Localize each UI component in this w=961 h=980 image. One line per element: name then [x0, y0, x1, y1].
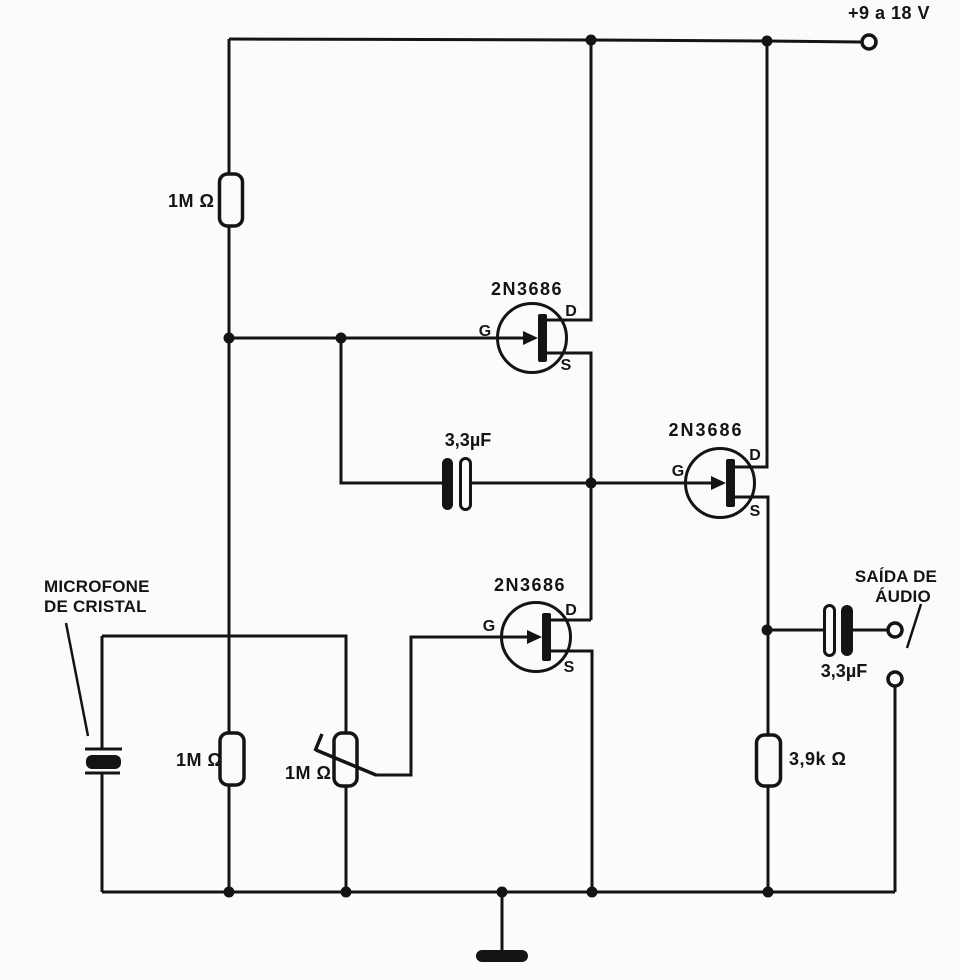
- svg-text:SAÍDA DE: SAÍDA DE: [855, 567, 937, 586]
- wire output terminal 2 to ground rail: [894, 686, 897, 892]
- wire microphone lower lead to ground rail: [101, 774, 104, 892]
- svg-text:3,3µF: 3,3µF: [445, 430, 491, 450]
- wire Q3 source to ground rail: [551, 651, 592, 892]
- wire pot wiper to Q3 gate: [375, 637, 529, 775]
- svg-text:3,3µF: 3,3µF: [821, 661, 867, 681]
- transistor Q2 2N3686: [686, 449, 755, 518]
- ground symbol stem: [501, 892, 504, 952]
- junction ground rail at ground stem: [497, 887, 508, 898]
- svg-text:1M Ω: 1M Ω: [176, 750, 222, 770]
- potentiometer R3 wiper end tick: [315, 734, 322, 751]
- wire C2 to output terminal: [853, 629, 888, 632]
- wire microphone vertical upper lead: [101, 636, 104, 749]
- svg-text:2N3686: 2N3686: [668, 420, 743, 440]
- svg-text:DE CRISTAL: DE CRISTAL: [44, 597, 147, 616]
- capacitor C1 minus plate (outline): [461, 459, 471, 510]
- capacitor C1 3,3uF plus plate (filled): [442, 458, 453, 510]
- junction ground rail at pot: [341, 887, 352, 898]
- wire Q2 source down to output node: [735, 497, 768, 630]
- capacitor C2 3,3uF minus plate (outline): [825, 606, 835, 656]
- junction top rail at Q1 drain column: [586, 35, 597, 46]
- junction ground rail at Q3 source column: [587, 887, 598, 898]
- wire Q3 drain horizontal: [551, 619, 591, 622]
- svg-text:S: S: [750, 503, 761, 520]
- wire Q1 gate horizontal: [229, 337, 525, 340]
- svg-text:G: G: [479, 323, 491, 340]
- svg-text:1M Ω: 1M Ω: [168, 191, 214, 211]
- resistor R4 3,9k ohm body: [757, 735, 781, 786]
- resistor R2 1M ohm body: [220, 733, 244, 785]
- svg-text:G: G: [483, 618, 495, 635]
- wire Q1 source down to Q3 drain: [547, 353, 591, 620]
- wire R4 bottom to ground rail: [767, 786, 770, 892]
- ground symbol bar: [476, 950, 528, 962]
- terminal audio output lower circle: [888, 672, 902, 686]
- svg-text:2N3686: 2N3686: [491, 279, 563, 299]
- wire Q1 drain to top rail: [547, 40, 591, 320]
- svg-text:1M Ω: 1M Ω: [285, 763, 331, 783]
- junction ground rail at R4: [763, 887, 774, 898]
- junction ground rail at R2: [224, 887, 235, 898]
- junction Q1 gate at C1 branch: [336, 333, 347, 344]
- svg-text:S: S: [564, 659, 575, 676]
- junction output node Q2 source: [762, 625, 773, 636]
- crystal microphone MIC top plate line: [85, 748, 122, 751]
- potentiometer R3 1M ohm body: [334, 733, 357, 786]
- wire pot bottom to ground rail: [345, 786, 348, 892]
- svg-text:D: D: [749, 447, 761, 464]
- svg-text:2N3686: 2N3686: [494, 575, 566, 595]
- svg-text:S: S: [561, 357, 572, 374]
- potentiometer R3 wiper arrow diagonal: [316, 750, 376, 775]
- wire left vertical (rail to R1): [228, 39, 231, 174]
- wire C1 right plate to Q2 gate: [471, 482, 712, 485]
- label pointer line MICROFONE: [66, 623, 88, 736]
- svg-text:MICROFONE: MICROFONE: [44, 577, 150, 596]
- capacitor C2 plus plate (filled): [841, 605, 853, 656]
- label pointer line SAIDA DE AUDIO: [907, 604, 921, 648]
- svg-text:+9 a 18 V: +9 a 18 V: [848, 3, 930, 23]
- wire node A vertical to coupling cap C1: [341, 338, 442, 483]
- svg-text:D: D: [565, 602, 577, 619]
- wire Q2 drain to top rail: [735, 41, 767, 467]
- junction node B Q1 source / Q2 gate / Q3 drain: [586, 478, 597, 489]
- junction top rail at Q2 drain column: [762, 36, 773, 47]
- svg-text:G: G: [672, 463, 684, 480]
- wire output node to C2: [767, 629, 825, 632]
- wire R1 bottom to ground rail (left bias divider column): [228, 226, 231, 892]
- wire output node down through R4: [767, 630, 770, 735]
- svg-text:D: D: [565, 303, 577, 320]
- wire top supply rail: [229, 39, 861, 42]
- resistor R1 1M ohm body: [220, 174, 243, 226]
- crystal microphone MIC bottom plate line: [85, 772, 120, 775]
- svg-text:3,9k Ω: 3,9k Ω: [789, 749, 846, 769]
- transistor Q3 2N3686: [502, 603, 571, 672]
- transistor Q1 2N3686: [498, 304, 567, 373]
- wire ground rail bottom: [102, 891, 895, 894]
- junction Q1 gate at bias divider: [224, 333, 235, 344]
- crystal microphone MIC crystal slab: [86, 755, 121, 769]
- terminal +V supply circle: [862, 35, 876, 49]
- terminal audio output upper circle: [888, 623, 902, 637]
- svg-text:ÁUDIO: ÁUDIO: [875, 587, 931, 606]
- wire microphone top to pot top: [102, 636, 346, 733]
